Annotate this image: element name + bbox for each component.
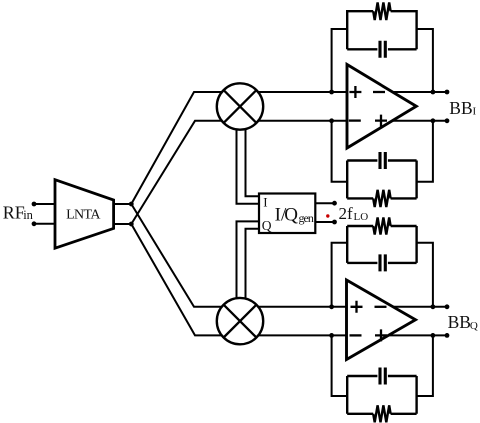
svg-text:gen: gen: [299, 211, 314, 225]
wire loop3 frame: [347, 226, 416, 263]
svg-text:BB: BB: [449, 98, 472, 118]
svg-text:LNTA: LNTA: [66, 207, 101, 222]
wire mixer M2 output upper to op-amp U4: [240, 306, 352, 308]
mixer M2: [217, 298, 263, 344]
node BBI lower terminal: [445, 118, 450, 123]
op-amp U3 plus lower: [375, 115, 387, 127]
wire mixer M2 LO right: [246, 229, 260, 321]
svg-text:Q: Q: [262, 218, 272, 233]
node U4 in upper junction: [329, 304, 334, 309]
wire node A to mixer M1 upper input: [131, 92, 240, 204]
wire node B to mixer M1 lower input: [131, 121, 240, 224]
wire feedback loop3 left: [332, 243, 348, 307]
wire RF input lower: [34, 223, 56, 225]
I/Q generator U2: [259, 194, 315, 234]
wire node B to mixer M2 lower input: [131, 224, 240, 335]
wire LNTA output upper: [114, 203, 132, 205]
wire I/Q gen output lower: [315, 221, 334, 223]
wire feedback loop4 left: [332, 335, 348, 396]
mixer M1 X: [224, 90, 257, 123]
wire loop2 frame: [347, 161, 416, 199]
capacitor C3: [380, 254, 385, 271]
node BBQ upper terminal: [445, 304, 450, 309]
node U3 in upper junction: [329, 90, 334, 95]
wire mixer M2 output lower to op-amp U4: [240, 334, 352, 336]
wire LNTA output lower: [114, 223, 132, 225]
svg-text:Q: Q: [470, 320, 478, 332]
resistor R1: [373, 2, 390, 20]
wire feedback loop2 right: [417, 121, 433, 182]
node BBQ lower terminal: [445, 333, 450, 338]
wire mixer M1 LO left: [237, 106, 260, 204]
svg-text:RF: RF: [3, 202, 25, 222]
capacitor C4: [380, 368, 385, 385]
LNTA amplifier U1: [55, 180, 114, 249]
wire op-amp U3 output lower to BBI: [386, 120, 447, 122]
op-amp U3: [347, 65, 416, 149]
op-amp U4 minus upper: [375, 306, 387, 308]
node U3 out upper junction: [431, 90, 436, 95]
op-amp U3 plus upper: [349, 86, 361, 98]
svg-text:BB: BB: [448, 312, 471, 332]
node U4 in lower junction: [329, 333, 334, 338]
node LO upper terminal: [332, 201, 337, 206]
wire feedback loop3 right: [417, 243, 433, 307]
resistor R4: [373, 405, 390, 422]
wire mixer M1 output upper to op-amp U3: [240, 91, 352, 93]
node U3 out lower junction: [431, 118, 436, 123]
resistor R3: [373, 217, 390, 234]
wire mixer M1 output lower to op-amp U3: [240, 120, 352, 122]
wire feedback loop2 left: [332, 121, 348, 182]
mixer M2 X: [224, 305, 257, 338]
mixer M1: [217, 83, 263, 129]
op-amp U4: [347, 280, 416, 360]
node U4 out upper junction: [431, 304, 436, 309]
node U3 in lower junction: [329, 118, 334, 123]
capacitor C1: [380, 41, 385, 58]
node U4 out lower junction: [431, 333, 436, 338]
node LO lower terminal: [332, 220, 337, 225]
wire I/Q gen output upper: [315, 202, 334, 204]
svg-text:in: in: [23, 208, 33, 222]
red dot marker: [326, 214, 329, 217]
node BBI upper terminal: [445, 90, 450, 95]
node RF lower: [32, 221, 37, 226]
wire node A to mixer M2 upper input: [131, 204, 240, 307]
wire op-amp U4 output upper to BBQ: [388, 306, 447, 308]
op-amp U4 plus upper: [351, 301, 363, 313]
svg-text:I: I: [473, 105, 477, 117]
wire feedback loop4 right: [417, 335, 433, 396]
svg-text:I: I: [263, 194, 267, 209]
op-amp U4 minus lower: [350, 334, 362, 336]
node A: [129, 202, 134, 207]
wire feedback loop1 left: [332, 29, 348, 92]
svg-text:LO: LO: [354, 211, 369, 223]
op-amp U3 minus lower: [349, 119, 361, 121]
op-amp U3 minus upper: [373, 91, 385, 93]
node B: [129, 222, 134, 227]
op-amp U4 plus lower: [375, 329, 387, 341]
wire mixer M2 LO left: [237, 221, 260, 321]
wire feedback loop1 right: [417, 29, 433, 92]
svg-text:2f: 2f: [339, 204, 354, 223]
capacitor C2: [380, 152, 385, 169]
wire RF input upper: [34, 203, 56, 205]
svg-text:I/Q: I/Q: [275, 204, 299, 225]
wire mixer M1 LO right: [246, 106, 260, 196]
wire op-amp U4 output lower to BBQ: [384, 334, 447, 336]
resistor R2: [373, 190, 390, 207]
wire op-amp U3 output upper to BBI: [388, 91, 447, 93]
wire loop4 frame: [347, 376, 416, 414]
wire loop1 frame: [347, 11, 416, 49]
node RF upper: [32, 202, 37, 207]
